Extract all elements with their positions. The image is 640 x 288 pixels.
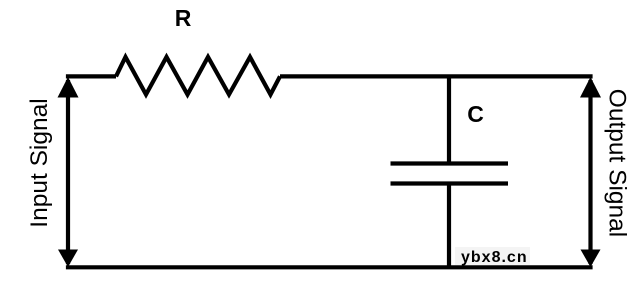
svg-text:C: C <box>467 101 484 127</box>
svg-text:ybx8.cn: ybx8.cn <box>461 249 528 266</box>
svg-text:R: R <box>175 5 192 31</box>
wire: capacitor bottom lead <box>447 186 451 268</box>
wire: capacitor top lead <box>447 76 451 161</box>
resistor R <box>116 57 280 95</box>
capacitor C <box>391 164 509 184</box>
wire: bottom rail <box>66 265 593 269</box>
input signal double arrow <box>58 77 79 267</box>
output signal double arrow <box>580 77 601 267</box>
wire: top segment from resistor to output node (through capacitor node) <box>280 74 593 78</box>
svg-text:Input Signal: Input Signal <box>26 98 53 227</box>
wire: top-left segment from input node to resistor <box>66 74 116 78</box>
watermark background box <box>455 247 530 265</box>
svg-text:Output Signal: Output Signal <box>604 89 631 237</box>
